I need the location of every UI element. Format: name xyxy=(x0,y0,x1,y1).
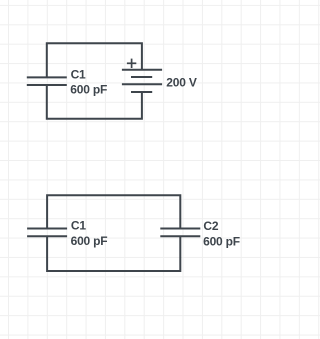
capacitor C1 (top circuit) top plate xyxy=(27,76,67,78)
svg-text:200 V: 200 V xyxy=(166,76,197,90)
wire: top circuit upper run (left wire to C1, across top, right wire to battery +) xyxy=(47,43,142,77)
svg-text:600 pF: 600 pF xyxy=(203,234,240,248)
wire: top circuit lower run (C1 bottom, across bottom, to battery - terminal) xyxy=(47,85,142,119)
capacitor C2 bottom plate xyxy=(160,235,200,237)
capacitor C2 top plate xyxy=(160,228,200,230)
svg-text:C1: C1 xyxy=(71,219,86,233)
capacitor C1 (bottom circuit) top plate xyxy=(27,228,67,230)
wire: bottom circuit lower run (C1 bottom, across bottom, to C2 bottom) xyxy=(47,236,180,271)
svg-text:600 pF: 600 pF xyxy=(70,83,107,97)
wire: bottom circuit upper run (left wire to C1, across top, right wire to C2) xyxy=(47,195,180,228)
capacitor C1 (bottom circuit) bottom plate xyxy=(27,235,67,237)
svg-text:C1: C1 xyxy=(71,67,86,81)
battery V1 long plate (lower positive) xyxy=(122,83,162,85)
capacitor C1 (top circuit) bottom plate xyxy=(27,84,67,86)
battery V1 short plate (upper negative) xyxy=(131,76,152,78)
svg-text:C2: C2 xyxy=(203,219,218,233)
svg-text:600 pF: 600 pF xyxy=(71,234,108,248)
battery V1 short plate (bottom negative) xyxy=(131,91,152,93)
battery V1 long plate (top, positive) xyxy=(122,69,162,71)
battery plus polarity mark xyxy=(127,59,136,68)
